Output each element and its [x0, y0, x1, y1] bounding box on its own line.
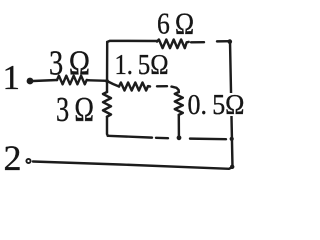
svg-text:1: 1 — [3, 58, 21, 97]
svg-text:0. 5Ω: 0. 5Ω — [188, 89, 245, 121]
svg-text:2: 2 — [4, 138, 22, 178]
svg-text:1. 5Ω: 1. 5Ω — [115, 49, 169, 81]
svg-text:6 Ω: 6 Ω — [157, 6, 194, 41]
svg-text:3 Ω: 3 Ω — [49, 44, 90, 83]
svg-text:3 Ω: 3 Ω — [56, 90, 94, 129]
